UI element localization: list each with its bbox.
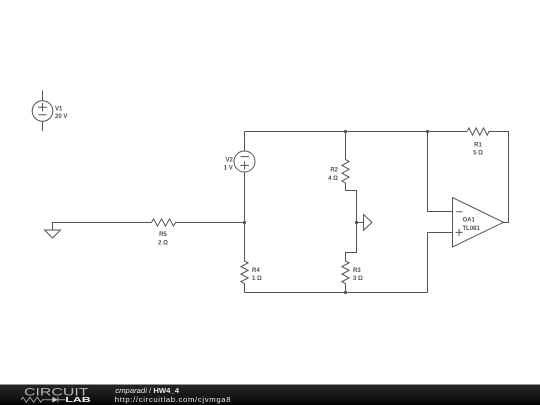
svg-text:http://circuitlab.com/cjvmga8: http://circuitlab.com/cjvmga8 [115, 395, 231, 404]
svg-text:1 Ω: 1 Ω [252, 276, 262, 282]
svg-text:R1: R1 [474, 143, 482, 149]
svg-text:4 Ω: 4 Ω [328, 176, 338, 182]
svg-text:cmparadi / HW4_4: cmparadi / HW4_4 [115, 386, 179, 395]
svg-text:V2: V2 [225, 157, 233, 163]
svg-text:OA1: OA1 [463, 217, 476, 223]
svg-text:TL081: TL081 [463, 226, 481, 232]
svg-text:20 V: 20 V [55, 114, 67, 120]
svg-text:LAB: LAB [65, 395, 90, 404]
svg-text:V1: V1 [55, 106, 63, 112]
svg-text:1 V: 1 V [224, 166, 233, 172]
svg-text:3 Ω: 3 Ω [353, 276, 363, 282]
svg-text:R4: R4 [252, 268, 260, 274]
svg-text:R5: R5 [159, 232, 167, 238]
svg-text:2 Ω: 2 Ω [158, 240, 168, 246]
svg-text:R2: R2 [330, 168, 338, 174]
svg-text:5 Ω: 5 Ω [473, 150, 483, 156]
svg-text:R3: R3 [353, 268, 361, 274]
